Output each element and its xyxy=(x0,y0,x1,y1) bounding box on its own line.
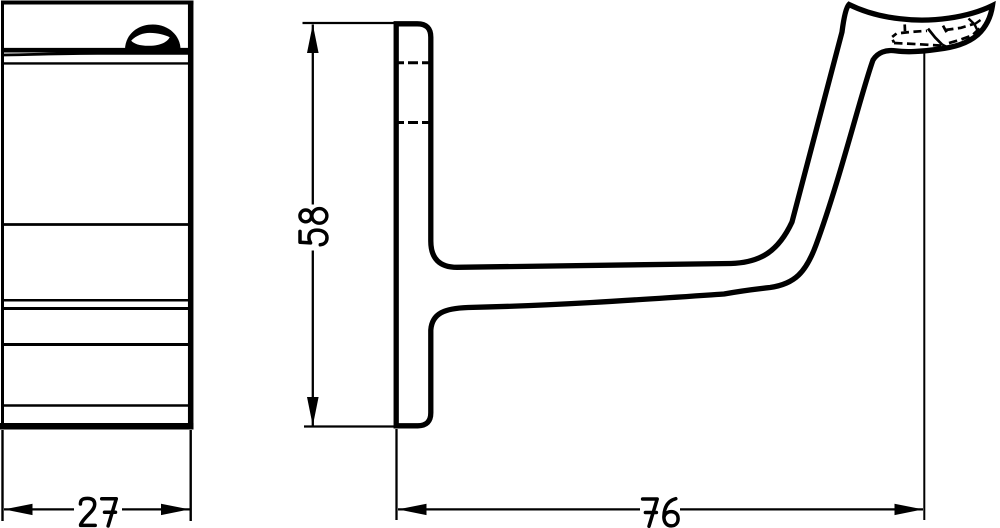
dim 76 extension line right (from saddle) xyxy=(923,53,925,520)
dim 58 arrow top xyxy=(307,24,319,53)
front view line y344 xyxy=(4,343,189,346)
front view line y224 xyxy=(4,223,189,226)
dim 27 text digit 2 xyxy=(80,498,95,525)
digit 8 xyxy=(300,209,327,224)
plate hidden hole dashed line lower xyxy=(394,121,433,124)
front view outer rectangle left edge xyxy=(1,1,4,430)
dim 27 text digit 7 xyxy=(102,499,117,526)
front view outer rectangle top edge xyxy=(1,1,194,5)
dim 27 arrow right xyxy=(161,504,190,515)
front view line y405 xyxy=(4,404,189,407)
dim 58 line lower segment xyxy=(312,251,314,426)
side view plate and outer contour xyxy=(396,5,992,426)
dim 58 text rotated group xyxy=(300,209,327,245)
dim 76 arrow left xyxy=(398,504,427,515)
dim 58 arrow bottom xyxy=(307,397,319,426)
dim 27 extension line left xyxy=(1,430,3,521)
screw dome highlight xyxy=(131,33,170,46)
screw dome head xyxy=(125,25,181,50)
digit 5 xyxy=(300,230,327,245)
front view outer rectangle right edge xyxy=(188,1,194,430)
front view line y308 xyxy=(4,307,189,310)
plate hidden hole dashed line upper xyxy=(394,61,433,64)
front view line y63 xyxy=(4,62,189,64)
dim 76 line right segment xyxy=(680,508,923,510)
dim 27 line left segment xyxy=(4,508,74,510)
dim 27 arrow left xyxy=(4,504,33,515)
dim 58 extension line top xyxy=(303,22,395,24)
dim 58 line upper segment xyxy=(312,25,314,205)
dim 76 arrow right xyxy=(895,504,924,515)
dim 76 text digit 6 xyxy=(664,499,678,526)
front view outer rectangle bottom edge xyxy=(0,423,194,430)
front view saddle under line (wavy) xyxy=(4,53,189,55)
saddle hidden detail dashes xyxy=(892,19,981,48)
front view line y300 xyxy=(4,299,189,302)
front view saddle top thick line xyxy=(3,48,189,53)
dim 76 line left segment xyxy=(398,508,640,510)
dim 76 extension line left (below plate) xyxy=(395,429,397,520)
dim 58 extension line bottom xyxy=(304,425,395,427)
dim 76 text digit 7 xyxy=(643,499,658,526)
dim 27 line right segment xyxy=(122,508,190,510)
dim 27 extension line right xyxy=(189,430,191,521)
